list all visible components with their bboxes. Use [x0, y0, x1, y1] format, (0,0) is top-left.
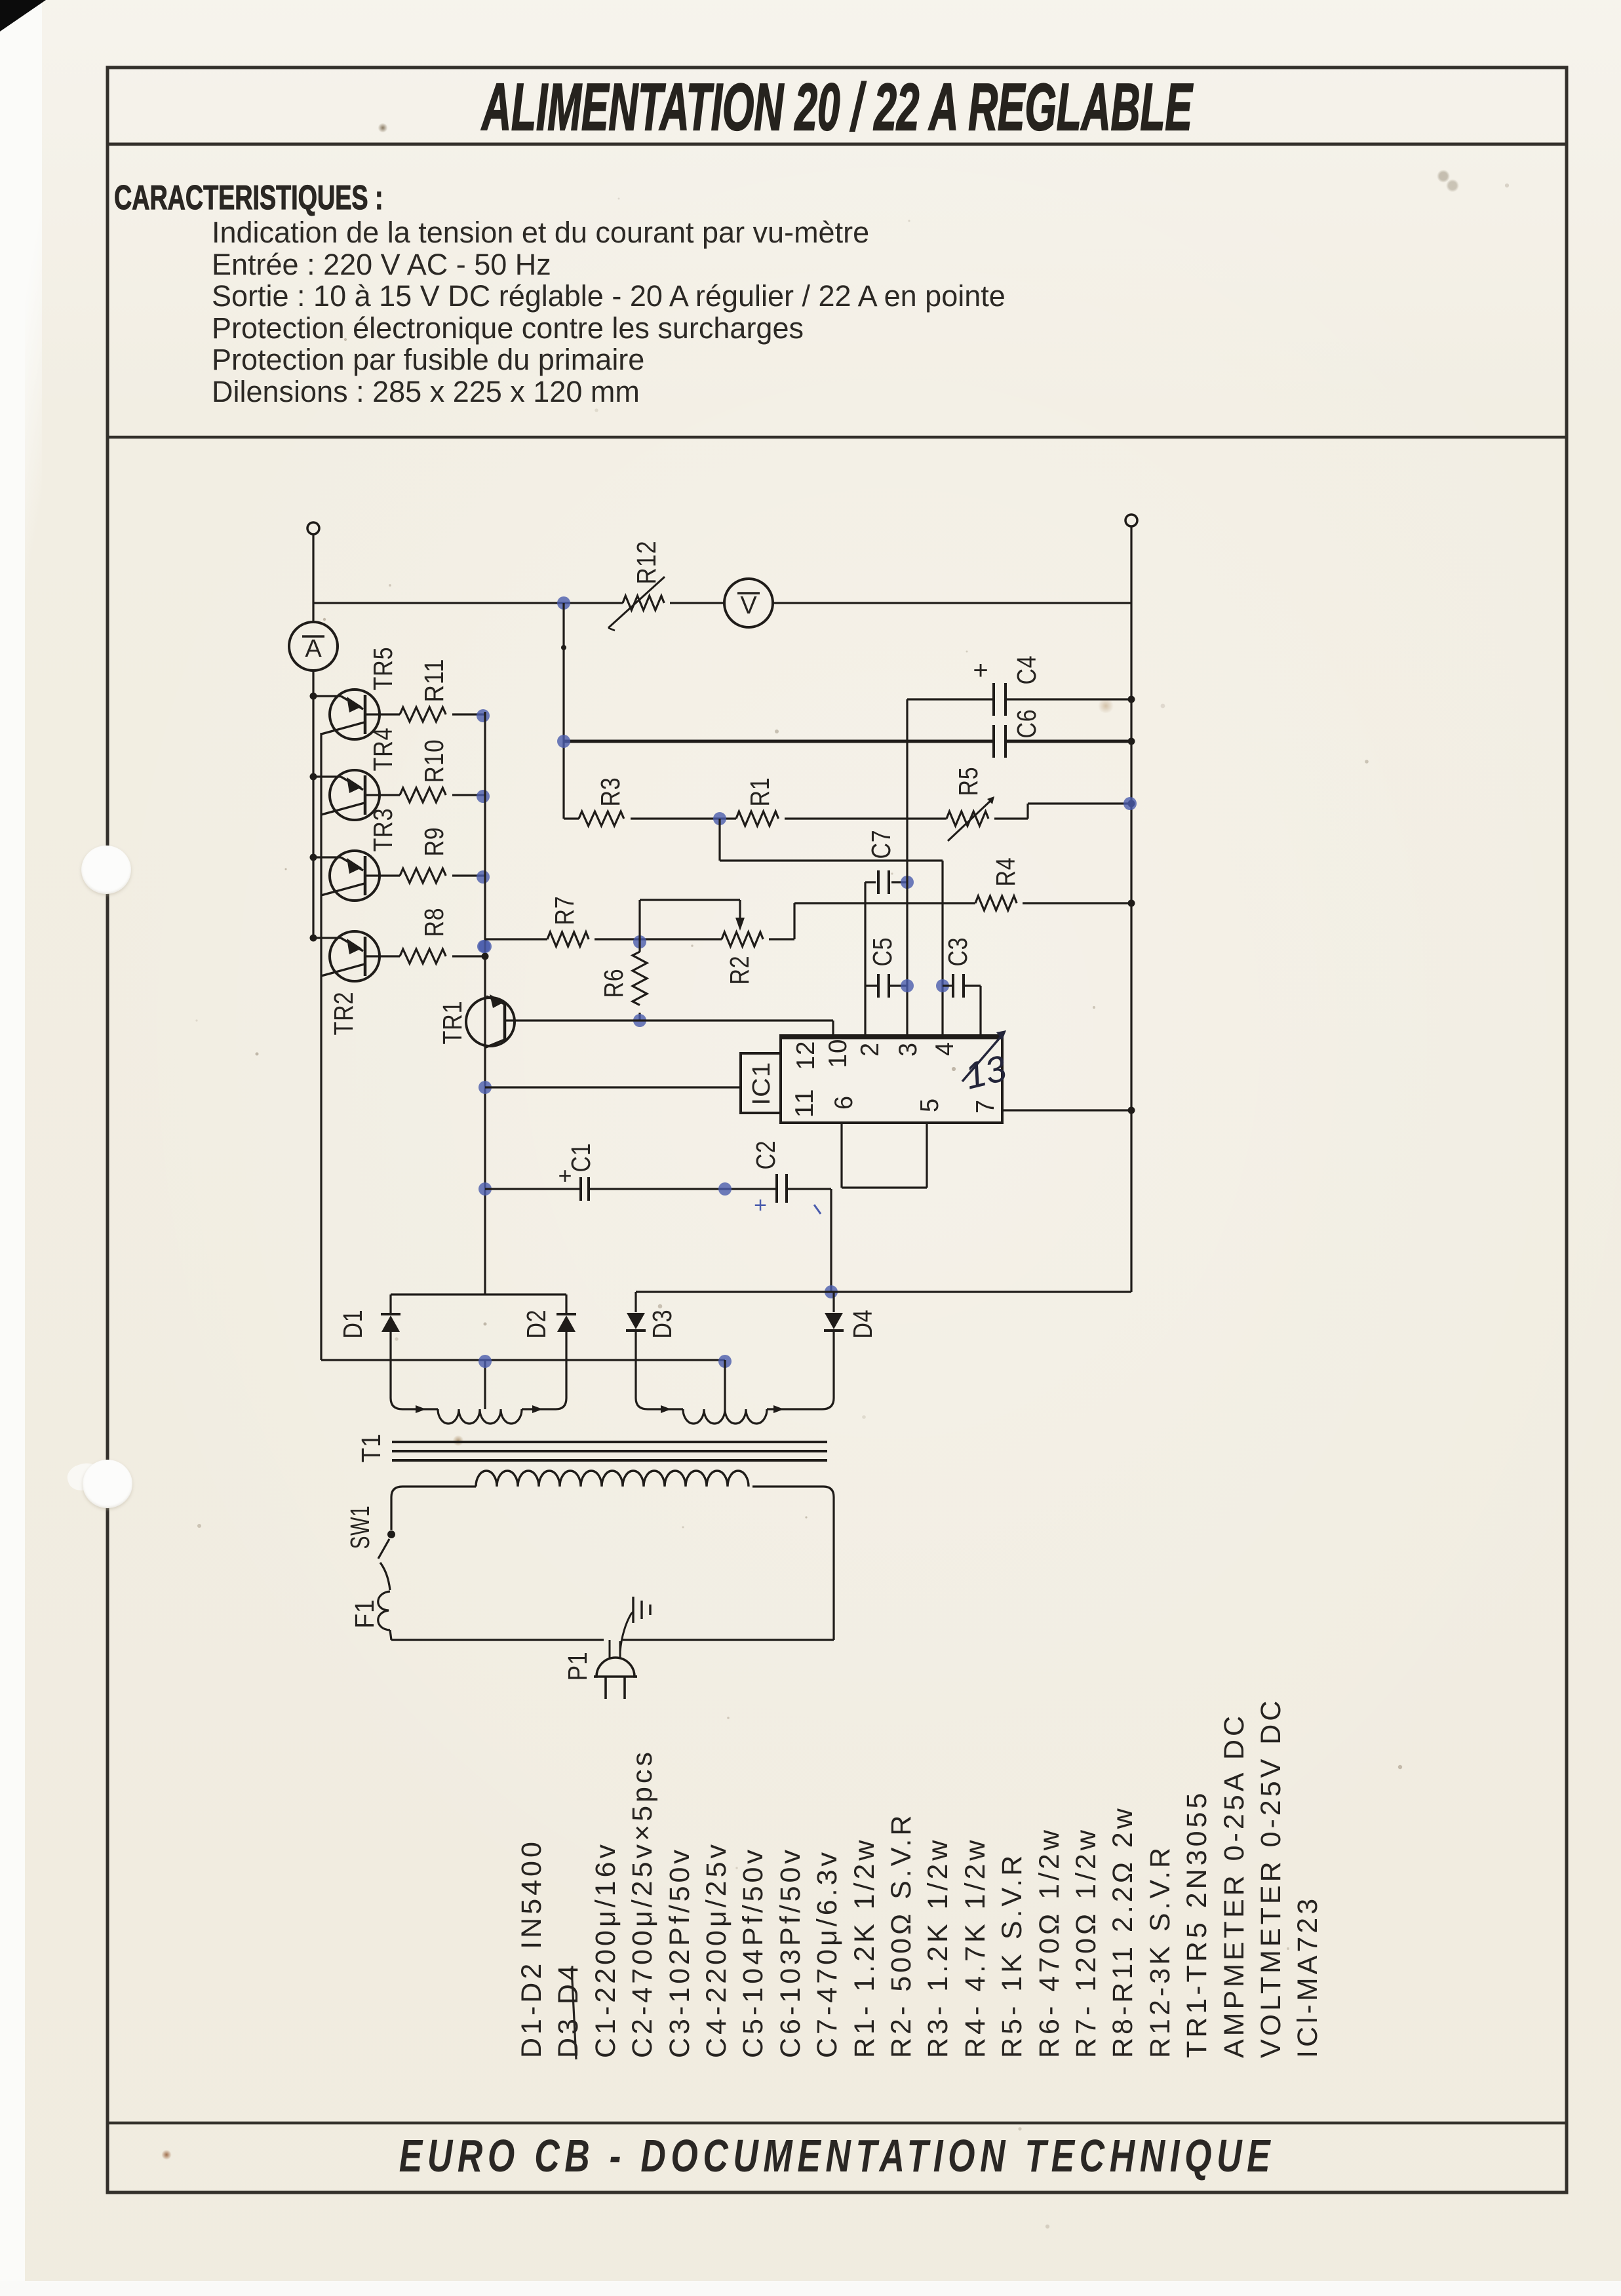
rheostat R5 — [947, 811, 988, 826]
svg-text:D3: D3 — [647, 1310, 677, 1339]
svg-text:C1: C1 — [566, 1143, 596, 1173]
svg-text:C3-102Pf/50v: C3-102Pf/50v — [664, 1846, 695, 2058]
diode D1 — [389, 1294, 391, 1315]
wire pin7 to rail — [1002, 1109, 1131, 1111]
wire primary right — [752, 1485, 823, 1487]
svg-text:10: 10 — [824, 1039, 852, 1068]
plug P1 — [594, 1658, 637, 1677]
resistor R12 — [623, 596, 664, 610]
transformer secondary 1 — [391, 1398, 438, 1409]
wire branch down — [562, 603, 564, 819]
potentiometer R2 — [722, 932, 763, 946]
terminal top-right — [1125, 515, 1137, 526]
resistor R6 — [638, 942, 640, 952]
svg-text:R1: R1 — [745, 777, 775, 807]
wire center tap 2 — [724, 1360, 726, 1409]
diode D4 — [832, 1292, 834, 1312]
svg-text:C4: C4 — [1011, 655, 1042, 685]
transformer T1 core — [392, 1441, 827, 1443]
wire D3-D4 top line — [636, 1291, 1131, 1293]
capacitor C7 — [865, 881, 876, 883]
wire bus vertical — [484, 712, 486, 1294]
wire TR1 emitter to IC pin10 — [518, 1019, 833, 1021]
svg-text:R12-3K S.V.R: R12-3K S.V.R — [1144, 1844, 1176, 2058]
resistor R10 — [400, 788, 446, 802]
wire C1 line — [478, 1182, 492, 1196]
wire bottom primary line — [390, 1630, 391, 1640]
svg-text:TR3: TR3 — [368, 808, 398, 852]
earth ground — [620, 1612, 633, 1652]
switch SW1 — [387, 1530, 395, 1538]
wire R12 to voltmeter — [670, 602, 724, 604]
svg-text:F1: F1 — [349, 1599, 380, 1629]
capacitor C1 — [579, 1177, 582, 1201]
svg-text:SW1: SW1 — [345, 1506, 375, 1549]
svg-text:C4-2200μ/25v: C4-2200μ/25v — [701, 1841, 732, 2058]
svg-text:P1: P1 — [562, 1652, 593, 1681]
node top branch — [557, 596, 570, 610]
fuse F1 — [378, 1591, 390, 1630]
resistor R11 — [400, 707, 446, 722]
punch hole top — [81, 846, 131, 894]
svg-text:R5: R5 — [953, 767, 983, 796]
wire base chain — [320, 733, 322, 1360]
svg-text:R10: R10 — [419, 739, 449, 783]
wire center tap 1 — [484, 1360, 486, 1409]
svg-text:R6- 470Ω 1/2w: R6- 470Ω 1/2w — [1034, 1827, 1065, 2058]
transformer primary winding — [476, 1471, 749, 1487]
characteristics box divider — [107, 436, 1567, 439]
svg-text:R3- 1.2K 1/2w: R3- 1.2K 1/2w — [922, 1837, 954, 2058]
svg-text:+: + — [754, 1193, 767, 1218]
svg-text:+: + — [973, 656, 988, 685]
svg-text:R4: R4 — [990, 857, 1021, 887]
svg-text:R4- 4.7K 1/2w: R4- 4.7K 1/2w — [960, 1837, 991, 2058]
svg-text:D1-D2 IN5400: D1-D2 IN5400 — [516, 1839, 547, 2058]
svg-text:TR1-TR5 2N3055: TR1-TR5 2N3055 — [1181, 1790, 1213, 2058]
ammeter M1 — [289, 622, 338, 671]
resistor R7 — [547, 932, 589, 946]
svg-text:R9: R9 — [419, 827, 449, 857]
wire right rail — [1130, 526, 1132, 1292]
resistor R9 — [400, 868, 446, 883]
transistor TR2 — [310, 935, 317, 942]
svg-text:TR2: TR2 — [328, 992, 359, 1036]
wire wiper — [638, 900, 640, 942]
wire pin2 column — [864, 882, 866, 1034]
svg-text:AMPMETER 0-25A DC: AMPMETER 0-25A DC — [1219, 1713, 1250, 2058]
resistor R1 — [736, 811, 779, 826]
node R3/R1 — [713, 812, 726, 825]
diode D3 — [635, 1292, 636, 1312]
svg-text:VOLTMETER 0-25V DC: VOLTMETER 0-25V DC — [1255, 1698, 1287, 2058]
svg-text:R8: R8 — [419, 908, 449, 937]
capacitor C5 — [865, 984, 877, 986]
diode D2 — [565, 1294, 567, 1315]
svg-text:C7-470μ/6.3v: C7-470μ/6.3v — [811, 1849, 843, 2058]
svg-text:IC1: IC1 — [748, 1062, 775, 1106]
wire top output line — [313, 602, 623, 604]
svg-text:R1- 1.2K 1/2w: R1- 1.2K 1/2w — [849, 1837, 880, 2058]
svg-text:12: 12 — [792, 1041, 820, 1070]
wire pin3 column — [906, 699, 908, 1034]
svg-text:R2: R2 — [724, 956, 754, 985]
wire D1-D2 top line — [391, 1293, 566, 1295]
svg-text:D3 D4: D3 D4 — [553, 1962, 584, 2058]
resistor R8 — [400, 949, 446, 963]
wire branch R1 to C7 row — [718, 819, 720, 861]
footer box divider — [107, 2122, 1567, 2125]
node R7/R6 junction — [633, 935, 646, 948]
svg-text:R3: R3 — [595, 777, 625, 807]
svg-text:7: 7 — [971, 1099, 1000, 1114]
svg-text:TR5: TR5 — [368, 647, 398, 691]
capacitor C6 thick line — [564, 740, 992, 743]
svg-text:R11: R11 — [419, 659, 449, 703]
svg-text:2: 2 — [856, 1042, 884, 1057]
op-amp IC1 main body — [781, 1036, 1002, 1123]
transistor TR4 — [310, 773, 317, 781]
transformer secondary 2 — [636, 1398, 683, 1409]
wire center tap line — [321, 1359, 725, 1361]
wire C2 down to D4 — [830, 1189, 832, 1292]
IC1 aux box — [741, 1053, 781, 1113]
resistor R3 — [564, 817, 579, 819]
svg-text:C2: C2 — [751, 1140, 781, 1170]
transistor TR1 — [466, 998, 515, 1046]
svg-text:R2- 500Ω S.V.R: R2- 500Ω S.V.R — [886, 1812, 917, 2058]
svg-text:R7- 120Ω 1/2w: R7- 120Ω 1/2w — [1070, 1827, 1102, 2058]
svg-text:T1: T1 — [356, 1433, 386, 1463]
svg-text:C3: C3 — [943, 937, 973, 967]
svg-text:TR4: TR4 — [368, 728, 398, 771]
wire pin6/pin5 loop — [840, 1123, 842, 1188]
svg-text:C2-4700μ/25v×5pcs: C2-4700μ/25v×5pcs — [627, 1749, 658, 2058]
terminal top-left — [307, 522, 319, 534]
svg-text:C6: C6 — [1011, 709, 1042, 739]
svg-text:5: 5 — [916, 1098, 944, 1112]
wire R7 line — [478, 940, 492, 953]
svg-text:C6-103Pf/50v: C6-103Pf/50v — [775, 1846, 806, 2058]
resistor R4 — [794, 902, 975, 904]
transistor TR5 — [310, 693, 317, 700]
voltmeter M2 — [724, 579, 773, 627]
svg-text:R5- 1K S.V.R: R5- 1K S.V.R — [996, 1852, 1028, 2058]
svg-text:R7: R7 — [549, 896, 579, 925]
svg-text:V: V — [740, 592, 757, 619]
svg-text:C1-2200μ/16v: C1-2200μ/16v — [590, 1841, 621, 2058]
svg-text:D1: D1 — [338, 1310, 368, 1339]
svg-text:R6: R6 — [598, 969, 629, 998]
svg-text:D4: D4 — [848, 1310, 878, 1339]
transistor TR3 — [310, 854, 317, 861]
capacitor C3 — [936, 979, 949, 992]
punch hole bottom — [83, 1460, 132, 1508]
svg-text:C5-104Pf/50v: C5-104Pf/50v — [737, 1846, 769, 2058]
title box divider — [107, 143, 1567, 146]
svg-text:11: 11 — [791, 1089, 819, 1118]
svg-text:R12: R12 — [631, 541, 661, 585]
capacitor C2 — [775, 1174, 778, 1203]
svg-text:ICl-MA723: ICl-MA723 — [1292, 1896, 1323, 2058]
wire left rail — [312, 534, 314, 622]
svg-text:C5: C5 — [867, 937, 897, 967]
svg-text:D2: D2 — [521, 1310, 551, 1339]
capacitor C4 — [907, 698, 992, 700]
svg-text:C7: C7 — [866, 830, 896, 859]
wire primary left — [402, 1485, 476, 1487]
svg-text:6: 6 — [830, 1095, 858, 1110]
wire voltmeter to right rail — [773, 602, 1131, 604]
svg-text:3: 3 — [894, 1042, 922, 1057]
svg-text:R8-R11 2.2Ω 2w: R8-R11 2.2Ω 2w — [1107, 1805, 1139, 2058]
svg-text:TR1: TR1 — [437, 1001, 467, 1045]
svg-text:A: A — [305, 635, 322, 663]
wire base line to IC1 — [478, 1081, 492, 1094]
svg-text:4: 4 — [931, 1041, 959, 1056]
